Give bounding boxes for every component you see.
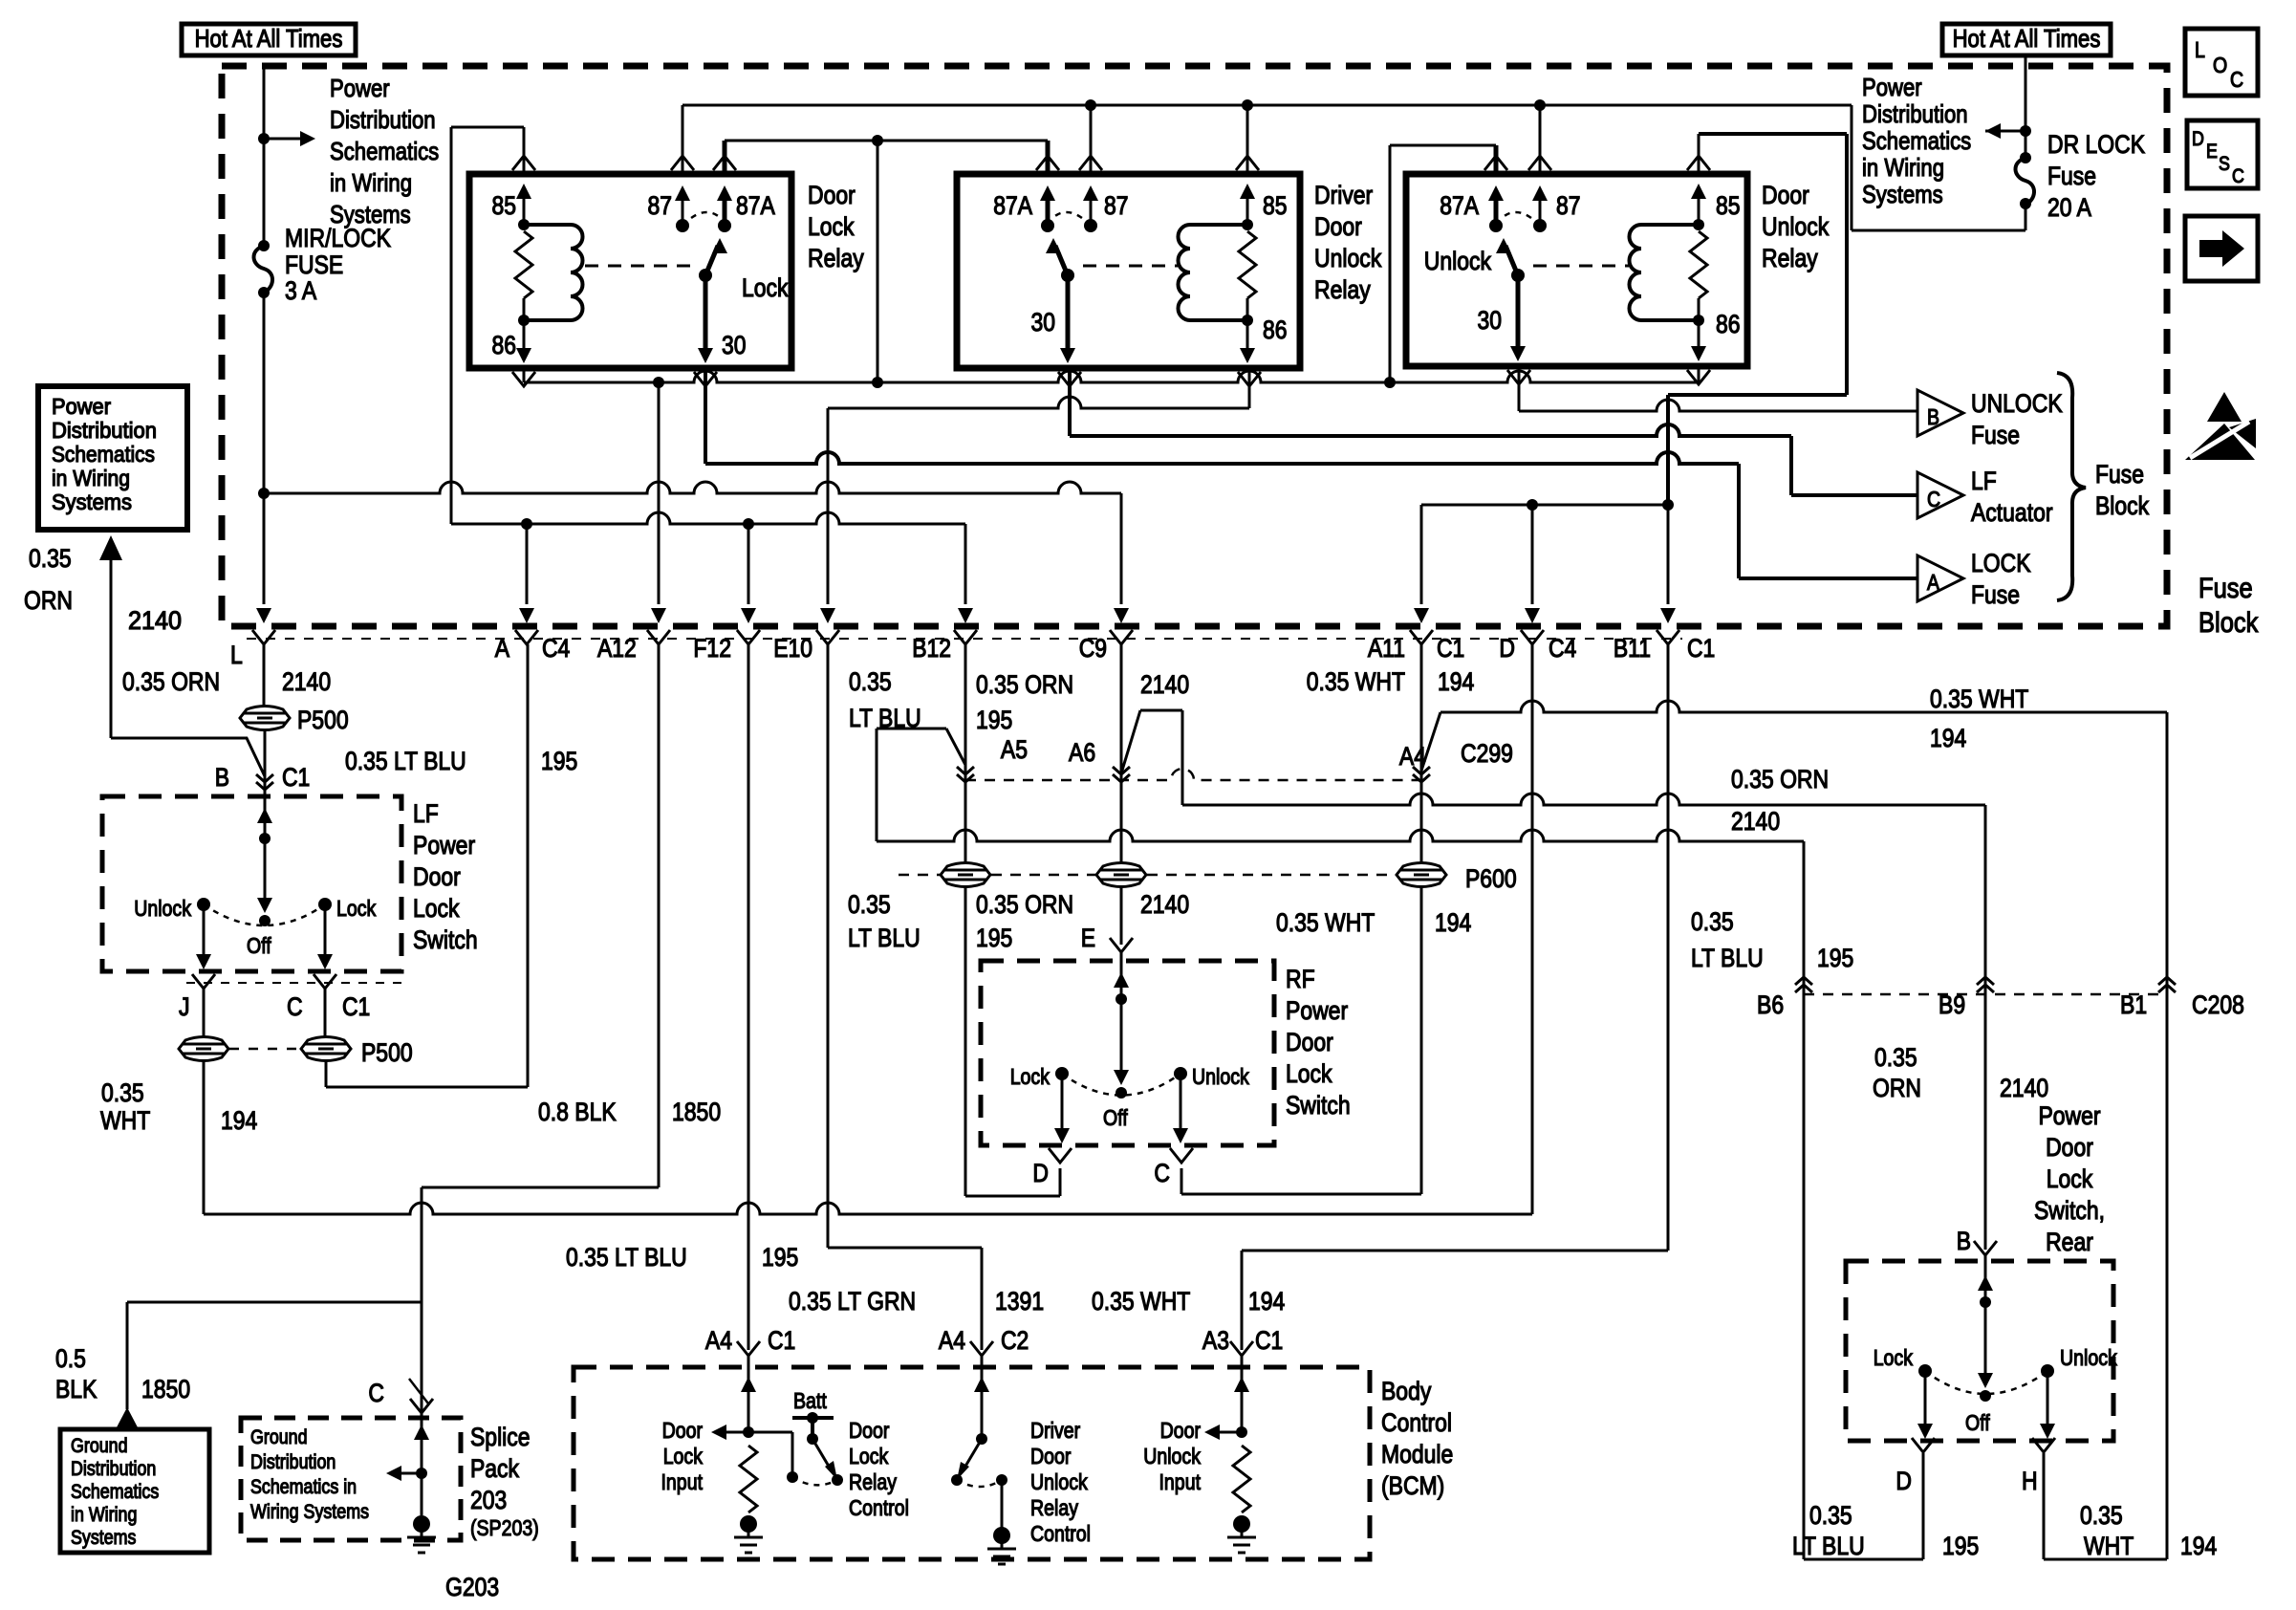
RF switch outputs <box>1062 1074 1180 1134</box>
svg-text:194: 194 <box>1438 667 1474 696</box>
rear switch contacts <box>1918 1364 1932 1378</box>
svg-text:0.35: 0.35 <box>849 667 892 696</box>
svg-text:RF: RF <box>1286 965 1315 993</box>
splice pack connector C <box>368 1379 384 1407</box>
svg-text:C: C <box>287 992 303 1021</box>
svg-text:C: C <box>1154 1159 1170 1187</box>
svg-text:Unlock: Unlock <box>1762 212 1830 241</box>
svg-text:Switch,: Switch, <box>2034 1196 2105 1225</box>
svg-text:0.35 WHT: 0.35 WHT <box>1930 685 2028 713</box>
svg-text:87A: 87A <box>1440 191 1479 220</box>
svg-text:0.35: 0.35 <box>1874 1043 1917 1072</box>
relay K2 box <box>957 174 1300 368</box>
svg-text:87A: 87A <box>736 191 775 220</box>
wire P500 to LF switch pin B <box>264 730 267 776</box>
svg-text:203: 203 <box>470 1486 507 1514</box>
svg-text:A3: A3 <box>1202 1326 1229 1355</box>
svg-text:Door: Door <box>1160 1418 1202 1443</box>
svg-text:Relay: Relay <box>1030 1495 1078 1520</box>
svg-text:S: S <box>2219 153 2230 175</box>
labels below P600 <box>848 890 921 952</box>
svg-text:0.35: 0.35 <box>101 1078 144 1107</box>
LF switch contacts <box>259 915 271 926</box>
svg-text:G203: G203 <box>445 1573 499 1601</box>
svg-text:Fuse: Fuse <box>1971 421 2020 449</box>
switch arm relay2 <box>1061 269 1074 282</box>
svg-text:H: H <box>2022 1467 2038 1495</box>
svg-text:C: C <box>2230 67 2243 92</box>
pin 87 relay1 <box>682 105 684 226</box>
svg-text:Wiring Systems: Wiring Systems <box>250 1501 369 1523</box>
label power distribution schematics top left <box>330 74 439 228</box>
coil relay1 <box>524 225 571 320</box>
svg-text:0.35 ORN: 0.35 ORN <box>1731 765 1829 794</box>
svg-text:P500: P500 <box>297 706 349 734</box>
svg-text:Fuse: Fuse <box>2095 460 2144 489</box>
switch arm relay1 <box>699 269 712 282</box>
svg-text:Unlock: Unlock <box>1424 247 1492 275</box>
svg-text:0.35: 0.35 <box>2080 1501 2123 1530</box>
svg-text:Ground: Ground <box>250 1426 308 1448</box>
inline connector P500 pin C <box>301 1037 351 1061</box>
svg-text:in Wiring: in Wiring <box>52 466 130 490</box>
svg-text:D: D <box>1032 1159 1049 1187</box>
wire C9 drop <box>1120 493 1123 604</box>
wire B12 drop with A5 jog <box>877 644 965 862</box>
svg-text:DR LOCK: DR LOCK <box>2047 130 2145 159</box>
svg-text:0.35 ORN: 0.35 ORN <box>976 670 1073 699</box>
svg-text:E10: E10 <box>773 634 812 663</box>
svg-text:C4: C4 <box>542 634 570 663</box>
svg-text:Hot At All Times: Hot At All Times <box>1953 24 2101 53</box>
wire T2 ground link 87A-87A <box>725 140 1048 142</box>
svg-text:WHT: WHT <box>100 1106 150 1135</box>
wire T1 main power rail <box>682 105 2025 230</box>
svg-text:0.35: 0.35 <box>1809 1501 1852 1530</box>
svg-text:Systems: Systems <box>52 490 132 514</box>
svg-text:Schematics: Schematics <box>330 137 439 165</box>
ground G203 <box>407 1515 436 1553</box>
BCM pins labels <box>705 1326 1283 1355</box>
svg-text:85: 85 <box>492 191 517 220</box>
wire B12 to RF switch D <box>965 887 1060 1196</box>
svg-text:Door: Door <box>1030 1444 1072 1469</box>
pin 86 relay3 <box>1698 320 1700 352</box>
fuse output B UNLOCK <box>1917 389 2063 449</box>
svg-text:C1: C1 <box>1255 1326 1283 1355</box>
svg-text:Relay: Relay <box>1314 275 1371 304</box>
svg-text:Unlock: Unlock <box>1143 1444 1201 1469</box>
svg-text:Hot At All Times: Hot At All Times <box>195 24 343 53</box>
svg-text:Distribution: Distribution <box>330 105 436 134</box>
rear switch box <box>1846 1261 2113 1441</box>
svg-text:Distribution: Distribution <box>71 1458 156 1480</box>
wire E10 LT GRN 1391 to BCM <box>828 644 982 1350</box>
wire WHT 194 bus <box>204 644 1532 1214</box>
svg-text:Block: Block <box>2199 607 2259 639</box>
connector B C1 labels <box>215 763 311 792</box>
BCM box <box>574 1367 1370 1559</box>
svg-text:0.35: 0.35 <box>29 544 72 573</box>
svg-text:0.35 LT BLU: 0.35 LT BLU <box>345 747 466 775</box>
svg-text:Relay: Relay <box>849 1469 897 1494</box>
off-page arrow up to power distribution <box>99 535 122 560</box>
svg-text:L: L <box>2195 37 2205 62</box>
wire L to P500 <box>263 644 266 706</box>
svg-text:Unlock: Unlock <box>1314 244 1382 272</box>
svg-text:0.35 WHT: 0.35 WHT <box>1092 1287 1190 1316</box>
wire E10 drop <box>827 408 830 604</box>
svg-text:Batt: Batt <box>793 1388 827 1413</box>
svg-text:Door: Door <box>662 1418 704 1443</box>
dashed P600 link <box>899 874 1396 877</box>
wire A-line lock fuse feed from relay1-30 <box>705 452 1917 578</box>
wire WHT 194 rail in block <box>1421 504 1668 507</box>
wire F12 drop <box>747 524 750 604</box>
wire T2 drop to bus1 <box>877 141 879 382</box>
svg-text:Lock: Lock <box>2047 1164 2093 1193</box>
svg-text:A: A <box>1927 570 1940 595</box>
svg-text:Door: Door <box>2046 1133 2093 1162</box>
svg-text:Fuse: Fuse <box>1971 580 2020 609</box>
svg-text:B9: B9 <box>1939 990 1965 1019</box>
wire D drop <box>1531 505 1534 604</box>
svg-text:(SP203): (SP203) <box>470 1515 539 1540</box>
fuse block label <box>2199 573 2259 639</box>
svg-text:Door: Door <box>849 1418 890 1443</box>
svg-text:Distribution: Distribution <box>1862 99 1968 128</box>
svg-text:LT BLU: LT BLU <box>1792 1532 1865 1560</box>
svg-text:C299: C299 <box>1461 739 1513 768</box>
svg-text:194: 194 <box>1435 908 1471 937</box>
wire from up-arrow feed joining pin B <box>111 558 265 776</box>
svg-text:85: 85 <box>1263 191 1288 220</box>
svg-text:E: E <box>1081 924 1095 952</box>
Hot At All Times box left <box>182 24 356 55</box>
svg-text:30: 30 <box>1031 308 1056 337</box>
svg-text:J: J <box>179 992 190 1021</box>
wire ORN 2140 rail to B9 <box>1182 794 1985 1250</box>
bus ORN 2140 rail <box>264 482 1121 493</box>
svg-text:C1: C1 <box>342 992 370 1021</box>
relay K3 box <box>1406 174 1747 366</box>
wire F12 LT BLU 195 to BCM <box>747 644 750 1350</box>
svg-text:Unlock: Unlock <box>2060 1345 2117 1370</box>
svg-text:Schematics: Schematics <box>52 442 155 467</box>
svg-text:87: 87 <box>1104 191 1129 220</box>
bus LT BLU 195 rail <box>451 512 965 524</box>
wire C to P500 <box>324 989 327 1036</box>
svg-text:in Wiring: in Wiring <box>1862 153 1944 182</box>
svg-text:Unlock: Unlock <box>134 896 191 921</box>
svg-text:Splice: Splice <box>470 1423 531 1451</box>
svg-text:LF: LF <box>1971 467 1997 495</box>
wire A12 drop <box>658 382 661 604</box>
svg-text:2140: 2140 <box>1140 890 1189 919</box>
svg-text:Schematics: Schematics <box>71 1481 159 1503</box>
wire B12 drop <box>964 524 967 604</box>
LF switch outputs <box>204 904 325 960</box>
svg-text:Systems: Systems <box>1862 180 1943 208</box>
fuse block dashed border <box>222 66 2167 626</box>
svg-text:2140: 2140 <box>2000 1074 2048 1102</box>
fuse output C LF Actuator <box>1917 467 2053 527</box>
svg-text:C9: C9 <box>1079 634 1107 663</box>
pin 86 relay2 <box>1246 320 1249 354</box>
pin 87 relay2 <box>1090 105 1093 226</box>
svg-text:195: 195 <box>541 747 577 775</box>
RF switch contacts <box>1055 1067 1069 1080</box>
svg-text:194: 194 <box>221 1106 257 1135</box>
svg-text:Door: Door <box>413 862 461 891</box>
svg-text:D: D <box>1895 1467 1912 1495</box>
svg-text:Input: Input <box>1159 1469 1202 1494</box>
svg-text:in Wiring: in Wiring <box>330 168 412 197</box>
fuse DR LOCK 20A <box>2020 152 2031 163</box>
BCM door lock input <box>717 1356 792 1473</box>
svg-text:C: C <box>368 1379 384 1407</box>
svg-text:B: B <box>215 763 229 792</box>
svg-text:Door: Door <box>1314 212 1362 241</box>
svg-text:(BCM): (BCM) <box>1381 1471 1444 1500</box>
dashed coupling relay2 <box>1083 265 1178 268</box>
wire A/C4 drop <box>526 524 529 604</box>
BCM door unlock input <box>1210 1356 1242 1432</box>
wire B11 WHT 194 to BCM A3 <box>1242 644 1668 1350</box>
svg-text:Control: Control <box>1030 1521 1091 1546</box>
rear switch outputs <box>1925 1371 2047 1429</box>
svg-text:MIR/LOCK: MIR/LOCK <box>285 224 391 252</box>
wire L feed from Hot At All Times down <box>263 66 266 604</box>
svg-text:LF: LF <box>413 799 439 828</box>
svg-text:C: C <box>1927 487 1940 511</box>
wire W1 LT GRN link relay2-86 to E10 <box>828 397 1249 408</box>
wire relay3 85 loop to WHT node <box>1668 134 1847 505</box>
fuse MIR/LOCK 3A <box>258 240 270 251</box>
svg-text:A: A <box>495 634 509 663</box>
switch arm relay3 <box>1511 269 1525 282</box>
svg-text:1391: 1391 <box>995 1287 1044 1316</box>
svg-text:87A: 87A <box>993 191 1032 220</box>
svg-text:A4: A4 <box>1399 742 1426 771</box>
svg-text:E: E <box>2206 141 2218 163</box>
svg-text:B6: B6 <box>1757 990 1784 1019</box>
wire LT BLU 195 rail to B6 <box>877 830 1923 1559</box>
svg-text:Distribution: Distribution <box>250 1451 336 1473</box>
svg-text:86: 86 <box>492 331 517 359</box>
dashed coupling relay3 <box>1533 265 1629 268</box>
svg-text:Lock: Lock <box>413 894 460 923</box>
svg-text:C1: C1 <box>768 1326 795 1355</box>
svg-text:0.35: 0.35 <box>848 890 891 919</box>
svg-text:LT BLU: LT BLU <box>1691 944 1764 972</box>
svg-text:Pack: Pack <box>470 1454 519 1483</box>
RF pins D and C <box>1049 1148 1072 1163</box>
svg-text:C: C <box>2232 165 2244 187</box>
fuse output A LOCK <box>1917 549 2031 609</box>
svg-text:B: B <box>1927 404 1939 429</box>
svg-text:in Wiring: in Wiring <box>71 1504 137 1526</box>
bus1 ground rail BLK <box>524 371 1699 382</box>
splice internal arrow <box>414 1425 429 1440</box>
svg-text:0.35 LT BLU: 0.35 LT BLU <box>566 1243 687 1272</box>
coil relay3 <box>1641 225 1699 320</box>
inline connector P500 pin B <box>240 707 290 730</box>
svg-text:Switch: Switch <box>413 925 478 954</box>
svg-text:Door: Door <box>1286 1028 1333 1056</box>
node bus516 tap <box>258 488 270 499</box>
wire relay3 87A to bus1 <box>1390 145 1496 382</box>
pin 86 relay1 <box>523 320 526 354</box>
strip pin labels <box>230 634 1715 669</box>
svg-text:P500: P500 <box>361 1038 413 1067</box>
svg-text:0.35 ORN: 0.35 ORN <box>122 667 220 696</box>
svg-text:2140: 2140 <box>282 667 331 696</box>
pin 85 relay1 <box>451 127 524 524</box>
svg-text:Power: Power <box>52 394 111 419</box>
svg-text:Driver: Driver <box>1314 181 1373 209</box>
BCM door unlock input resistor and ground <box>1233 1446 1250 1512</box>
svg-text:87: 87 <box>648 191 673 220</box>
svg-text:Door: Door <box>808 181 856 209</box>
svg-text:L: L <box>230 641 243 669</box>
DESC box <box>2187 120 2258 188</box>
svg-text:D: D <box>2192 128 2204 150</box>
svg-text:2140: 2140 <box>1731 807 1780 836</box>
svg-text:86: 86 <box>1716 310 1741 338</box>
svg-text:A6: A6 <box>1069 738 1095 767</box>
dashed coupling relay1 <box>585 265 690 268</box>
right arrow box <box>2185 216 2258 281</box>
wire A11/P600 to RF switch C <box>1181 887 1421 1194</box>
wire C9 drop with A6 jog <box>1121 644 1182 862</box>
svg-text:Lock: Lock <box>1286 1059 1332 1088</box>
svg-text:Lock: Lock <box>1010 1064 1051 1089</box>
svg-text:ORN: ORN <box>1873 1074 1921 1102</box>
dashed connector line C208 <box>1804 993 2167 996</box>
svg-text:0.8 BLK: 0.8 BLK <box>538 1098 617 1126</box>
wire A11 drop with A4 jog <box>1421 644 1440 862</box>
svg-text:195: 195 <box>762 1243 798 1272</box>
svg-text:FUSE: FUSE <box>285 250 343 279</box>
coil relay2 <box>1190 225 1247 320</box>
pin 87A relay1 <box>723 141 727 226</box>
wire DR LOCK feed <box>1985 55 2025 230</box>
wire C-line LF actuator feed from relay2-30 <box>1070 424 1917 495</box>
svg-text:Off: Off <box>1965 1410 1990 1435</box>
svg-text:Control: Control <box>1381 1408 1452 1437</box>
fuse block brace <box>2057 373 2086 600</box>
svg-text:30: 30 <box>1478 306 1503 335</box>
svg-text:C1: C1 <box>282 763 310 792</box>
svg-text:B12: B12 <box>912 634 951 663</box>
BCM driver door unlock relay control <box>981 1356 984 1439</box>
svg-text:Unlock: Unlock <box>1192 1064 1249 1089</box>
svg-text:Lock: Lock <box>663 1444 704 1469</box>
svg-text:1850: 1850 <box>672 1098 721 1126</box>
arrow to power distribution text <box>264 138 300 141</box>
svg-text:A5: A5 <box>1001 735 1028 764</box>
relay K1 box <box>469 174 791 368</box>
svg-text:Off: Off <box>247 933 271 958</box>
splice pack 203 box <box>241 1418 461 1540</box>
svg-text:Schematics: Schematics <box>1862 126 1971 155</box>
svg-text:85: 85 <box>1716 191 1741 220</box>
svg-text:C2: C2 <box>1001 1326 1029 1355</box>
pin 87A relay2 <box>1046 141 1051 226</box>
svg-text:30: 30 <box>722 331 747 359</box>
wire C9 to RF switch E <box>1120 887 1123 945</box>
dashed pass-through line A5-A6-A4 <box>965 769 1421 780</box>
inline connector P600 pin c <box>1397 863 1446 887</box>
resistor relay2 <box>1239 231 1256 298</box>
LOC box <box>2185 29 2258 96</box>
svg-text:Schematics in: Schematics in <box>250 1476 357 1498</box>
svg-text:0.35 WHT: 0.35 WHT <box>1276 908 1375 937</box>
inline connector P600 pin a <box>941 863 990 887</box>
svg-text:Relay: Relay <box>808 244 864 272</box>
wire A12 0.8 BLK 1850 <box>422 644 659 1515</box>
svg-text:Fuse: Fuse <box>2047 162 2096 190</box>
svg-text:Fuse: Fuse <box>2199 573 2253 604</box>
svg-text:Module: Module <box>1381 1440 1453 1469</box>
svg-text:87: 87 <box>1556 191 1581 220</box>
svg-text:2140: 2140 <box>128 606 182 635</box>
pin 85 relay2 <box>1246 105 1249 225</box>
svg-text:Rear: Rear <box>2046 1228 2093 1256</box>
svg-text:Lock: Lock <box>849 1444 889 1469</box>
svg-text:LT BLU: LT BLU <box>848 924 921 952</box>
svg-text:Power: Power <box>1286 996 1348 1025</box>
svg-text:0.35: 0.35 <box>1691 907 1734 936</box>
pin 30 relay1 <box>704 275 708 352</box>
svg-text:Systems: Systems <box>71 1527 136 1549</box>
LF power door lock switch box <box>102 796 401 971</box>
pin 30 relay3 <box>1516 275 1521 352</box>
svg-text:194: 194 <box>1248 1287 1285 1316</box>
ground distribution box <box>60 1429 209 1553</box>
svg-text:195: 195 <box>976 924 1012 952</box>
svg-text:Power: Power <box>330 74 390 102</box>
svg-text:C4: C4 <box>1549 634 1576 663</box>
svg-text:3 A: 3 A <box>285 276 316 305</box>
svg-text:Relay: Relay <box>1762 244 1818 272</box>
svg-text:WHT: WHT <box>2084 1532 2134 1560</box>
svg-text:Lock: Lock <box>808 212 855 241</box>
inline connector P600 pin b <box>1096 863 1146 887</box>
svg-text:195: 195 <box>976 706 1012 734</box>
wire J to P500 <box>203 989 206 1036</box>
svg-text:1850: 1850 <box>141 1375 190 1403</box>
svg-text:0.5: 0.5 <box>55 1344 86 1373</box>
pin 30 relay2 <box>1066 275 1071 352</box>
svg-text:Lock: Lock <box>742 273 789 302</box>
svg-text:Block: Block <box>2095 491 2150 520</box>
svg-text:0.35 WHT: 0.35 WHT <box>1307 667 1405 696</box>
pin 87 relay3 <box>1539 105 1542 226</box>
svg-text:A4: A4 <box>939 1326 965 1355</box>
svg-text:194: 194 <box>1930 724 1966 752</box>
RF switch common wire <box>1120 952 1123 1071</box>
BCM door lock input resistor and ground <box>740 1446 757 1512</box>
svg-text:A11: A11 <box>1368 634 1405 663</box>
off-page arrow to ground distribution <box>117 1407 138 1427</box>
arrow pin L crossing border <box>256 608 271 623</box>
rear pins D and H <box>1912 1438 1935 1452</box>
svg-text:A12: A12 <box>597 634 637 663</box>
pin 87A relay3 <box>1494 145 1499 226</box>
svg-text:BLK: BLK <box>55 1375 97 1403</box>
